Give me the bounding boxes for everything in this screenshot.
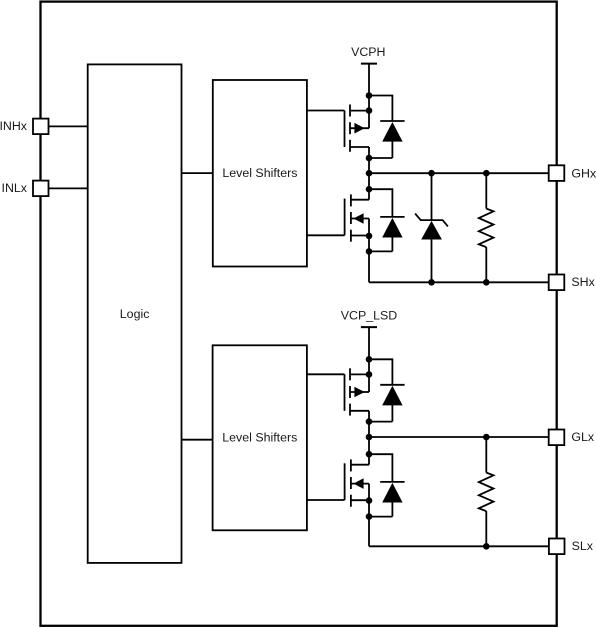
- diode D2 (body diode of Q2): [380, 217, 404, 252]
- transistor Q4 (low-side sink FET): [307, 454, 369, 507]
- junction node A1: [366, 92, 373, 99]
- wire Q2 source down to SHx net: [368, 236, 370, 283]
- supply VCPH bar symbol: [361, 63, 377, 65]
- junction node B5 (resistor bottom): [483, 279, 490, 286]
- wire logic to low-side level shifter: [182, 439, 213, 441]
- pin SHx: [549, 275, 596, 291]
- junction node G1: [366, 451, 373, 458]
- svg-text:Logic: Logic: [120, 307, 150, 321]
- wire diode D3 bottom to node E3: [369, 421, 392, 423]
- svg-text:Level Shifters: Level Shifters: [222, 431, 297, 445]
- wire GLx node to node G1: [368, 437, 370, 454]
- pin INHx: [0, 119, 49, 135]
- wire node A1 to diode D1 top: [369, 96, 392, 122]
- transistor Q2 (high-side sink FET): [307, 189, 369, 242]
- junction node A3: [366, 155, 373, 162]
- junction node G2 (Q4 source): [366, 497, 373, 504]
- wire GLx net: [369, 436, 549, 438]
- level shifter block U3 (low side): [213, 345, 307, 530]
- wire node C1 to diode D2 top: [369, 189, 392, 217]
- resistor R1 gate-source: [479, 173, 494, 282]
- svg-text:SHx: SHx: [571, 275, 595, 289]
- wire node A3 to GHx node: [368, 158, 370, 173]
- svg-text:Level Shifters: Level Shifters: [222, 166, 297, 180]
- wire diode D1 bottom to node A3: [369, 157, 392, 159]
- junction node C1: [366, 186, 373, 193]
- supply VCP_LSD bar symbol: [361, 326, 377, 328]
- wire diode D2 bottom to node C2: [369, 250, 392, 252]
- svg-text:VCP_LSD: VCP_LSD: [341, 309, 398, 323]
- junction node G3 (diode D4 anode tie): [366, 513, 373, 520]
- level shifter block U2 (high side): [213, 80, 307, 267]
- zener diode D5 gate clamp: [415, 173, 448, 282]
- pin GHx: [549, 165, 596, 181]
- junction node B2 (zener top): [428, 170, 435, 177]
- svg-text:VCPH: VCPH: [351, 45, 385, 59]
- resistor R2 gate-source: [479, 437, 494, 546]
- junction node B3 (resistor top): [483, 170, 490, 177]
- logic block: [88, 64, 182, 563]
- svg-text:SLx: SLx: [572, 539, 594, 553]
- svg-text:INHx: INHx: [0, 119, 28, 133]
- wire VCPH bar down to node A1: [368, 64, 370, 96]
- junction node B4 (zener bottom): [428, 279, 435, 286]
- pin SLx: [549, 539, 594, 555]
- diode D4 (body diode of Q4): [380, 482, 404, 517]
- wire node E3 to GLx node: [368, 422, 370, 437]
- wire node E1 to node E2: [368, 359, 370, 374]
- wire SHx net: [369, 281, 549, 283]
- junction node C2 (Q2 source): [366, 233, 373, 240]
- wire GHx net: [369, 172, 549, 174]
- wire node A1 to node A2: [368, 96, 370, 111]
- diode D3 (body diode of Q3): [380, 385, 404, 422]
- wire SLx net: [369, 545, 549, 547]
- wire diode D4 bottom to node G3: [369, 516, 392, 518]
- wire INLx to logic: [49, 187, 88, 189]
- svg-text:INLx: INLx: [2, 181, 28, 195]
- diode D1 (body diode of Q1): [380, 121, 404, 158]
- svg-text:GHx: GHx: [571, 166, 596, 180]
- junction node F2 (resistor top): [483, 434, 490, 441]
- wire node G1 to diode D4 top: [369, 454, 392, 482]
- pin GLx: [549, 430, 595, 446]
- junction node F3 (resistor bottom): [483, 543, 490, 550]
- wire logic to high-side level shifter: [182, 172, 214, 174]
- transistor Q3 (low-side source FET): [307, 368, 369, 421]
- junction node A2: [366, 107, 373, 114]
- wire INHx to logic: [49, 125, 88, 127]
- junction node E3: [366, 418, 373, 425]
- wire node E1 to diode D3 top: [369, 359, 392, 385]
- wire Q4 source down to SLx net: [368, 500, 370, 546]
- junction node E1: [366, 356, 373, 363]
- junction node E2: [366, 371, 373, 378]
- junction node C3 (diode D2 anode tie): [366, 248, 373, 255]
- svg-text:GLx: GLx: [571, 430, 595, 444]
- transistor Q1 (high-side source FET): [307, 105, 369, 159]
- wire GHx node to node C1: [368, 173, 370, 189]
- junction GHx node B1: [366, 170, 373, 177]
- wire VCP_LSD bar down to node E1: [368, 327, 370, 359]
- pin INLx: [2, 181, 49, 197]
- junction GLx node F1: [366, 434, 373, 441]
